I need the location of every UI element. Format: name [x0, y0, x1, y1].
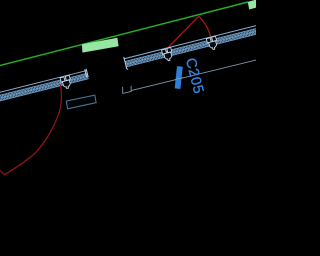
band B boundary lines — [125, 27, 263, 67]
band B top face line — [123, 25, 260, 59]
mullion body — [209, 41, 218, 50]
band B left end cap — [124, 57, 129, 70]
band A boundary lines — [0, 73, 88, 102]
band A fill — [0, 73, 88, 102]
band B fill — [125, 27, 263, 67]
mullion body — [62, 80, 71, 89]
wall highlight segment 1 — [82, 38, 119, 53]
dimension line — [131, 60, 256, 91]
band A end cap — [85, 69, 89, 78]
dimension bracket — [123, 86, 131, 94]
wall highlight segment 2 — [248, 0, 256, 9]
mullion squares — [162, 49, 167, 54]
band A top face line — [0, 71, 87, 95]
door D2 swing arc — [199, 16, 212, 39]
door D2 leaf — [166, 16, 199, 50]
door leaf blue — [175, 66, 183, 89]
mullion squares — [206, 38, 211, 43]
dimension line over leaf — [175, 78, 183, 80]
window band B — [123, 22, 265, 71]
mullion body — [164, 52, 173, 61]
door D1 swing arc — [0, 85, 61, 175]
window band A — [0, 69, 90, 107]
casework rectangle — [66, 95, 96, 109]
band B hatch — [126, 27, 264, 67]
wire green gridline — [0, 2, 248, 66]
band A hatch — [0, 73, 89, 102]
mullion squares — [60, 77, 65, 82]
